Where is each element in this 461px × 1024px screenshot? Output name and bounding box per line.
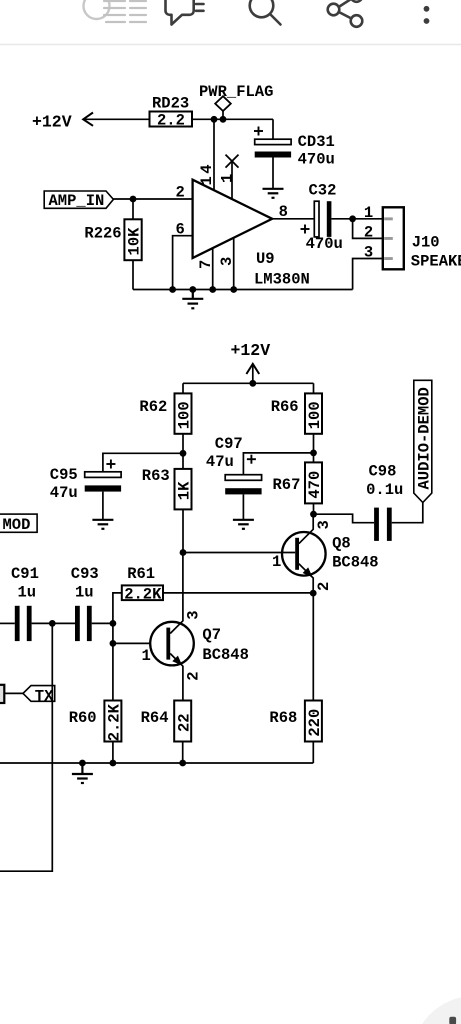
wire node K to L	[112, 623, 114, 643]
svg-text:6: 6	[176, 220, 185, 238]
svg-text:1: 1	[272, 553, 281, 571]
node dot R64	[179, 760, 186, 767]
wire C91 to dot M	[32, 622, 75, 624]
svg-text:C95: C95	[50, 466, 78, 484]
svg-text:BC848: BC848	[202, 646, 249, 664]
capacitor C98	[366, 463, 403, 541]
svg-text:CD31: CD31	[298, 133, 335, 151]
svg-text:1K: 1K	[176, 481, 194, 500]
capacitor C93	[71, 565, 99, 641]
svg-text:2.2K: 2.2K	[124, 586, 162, 604]
resistor R64	[141, 701, 194, 764]
svg-text:BC848: BC848	[332, 553, 379, 571]
resistor R68	[269, 593, 324, 763]
resistor R67	[273, 453, 325, 514]
svg-text:1: 1	[364, 204, 373, 222]
global label TX	[23, 686, 55, 706]
svg-text:U9: U9	[256, 250, 275, 268]
global label MOD	[0, 514, 37, 534]
node junction dot H	[180, 549, 187, 556]
svg-text:2: 2	[184, 671, 202, 680]
node dot R60	[110, 760, 117, 767]
svg-text:+12V: +12V	[231, 341, 271, 360]
node dot pin6	[169, 286, 176, 293]
svg-text:1u: 1u	[75, 584, 94, 602]
svg-text:C91: C91	[11, 565, 39, 583]
wire +12V rail	[183, 382, 314, 384]
ground C95	[92, 520, 113, 529]
svg-text:LM380N: LM380N	[254, 271, 310, 289]
node junction dot D	[349, 215, 356, 222]
wire Q8 base	[183, 552, 295, 554]
svg-text:R63: R63	[142, 467, 170, 485]
wire node L to R60	[112, 643, 114, 700]
ground amp	[72, 763, 93, 783]
svg-text:3: 3	[364, 244, 373, 262]
wire to J10 pin2	[353, 219, 383, 239]
svg-text:R67: R67	[273, 476, 301, 494]
svg-text:Q7: Q7	[202, 626, 221, 644]
svg-text:RD23: RD23	[152, 95, 189, 113]
SCHEMATIC BOTTOM SECTION	[0, 341, 434, 871]
node dot gnd	[189, 286, 196, 293]
svg-text:R68: R68	[269, 709, 297, 727]
capacitor C91	[0, 565, 39, 641]
global label AUDIO-DEMOD	[414, 380, 434, 502]
svg-text:22: 22	[175, 713, 193, 732]
node junction dot F	[180, 450, 187, 457]
svg-text:MOD: MOD	[3, 516, 31, 534]
ground CD31	[263, 189, 284, 198]
capacitor CD31	[254, 119, 335, 188]
svg-text:470u: 470u	[298, 151, 335, 169]
svg-text:PWR_FLAG: PWR_FLAG	[199, 83, 273, 101]
svg-text:R226: R226	[84, 225, 121, 243]
node junction dot M	[49, 620, 56, 627]
node junction dot A	[211, 116, 218, 123]
wire pin 6	[173, 236, 193, 290]
resistor R226	[84, 199, 143, 290]
wire pin 8 output	[272, 218, 314, 220]
svg-text:R66: R66	[271, 398, 299, 416]
capacitor C97	[206, 435, 314, 519]
power +12V amp	[231, 341, 271, 383]
wire node L to Q7 base	[113, 642, 166, 644]
wire to TX	[4, 692, 23, 694]
wire pin 14	[213, 119, 215, 190]
resistor R61	[113, 565, 163, 623]
svg-text:220: 220	[306, 709, 324, 737]
node junction dot J	[310, 590, 317, 597]
bottom-right zoom control	[412, 996, 461, 1024]
connector J10	[364, 204, 461, 270]
wire RD23 to CD31	[192, 118, 273, 120]
wire pin 1	[231, 161, 233, 199]
svg-text:100: 100	[176, 401, 194, 429]
svg-text:3: 3	[218, 257, 236, 266]
node junction dot I	[310, 511, 317, 518]
svg-text:AMP_IN: AMP_IN	[49, 192, 105, 210]
svg-text:1u: 1u	[18, 584, 37, 602]
wire pin 3	[233, 238, 235, 289]
svg-text:+12V: +12V	[32, 112, 72, 131]
SCHEMATIC TOP SECTION	[32, 83, 461, 308]
svg-text:7: 7	[197, 260, 215, 269]
svg-text:100: 100	[306, 401, 324, 429]
node junction dot K	[110, 620, 117, 627]
svg-text:470u: 470u	[306, 235, 343, 253]
wire +12V to RD23	[84, 118, 150, 120]
wire J10 pin3 to gnd rail	[353, 259, 383, 290]
svg-text:R64: R64	[141, 709, 169, 727]
wire C98 to label	[392, 503, 423, 523]
no-connect X on pin 1	[226, 155, 239, 168]
wire R61 to Q8 emitter	[163, 592, 313, 594]
svg-text:Q8: Q8	[332, 535, 351, 553]
wire C32 to J10 pin1	[331, 218, 382, 220]
resistor R66	[271, 383, 324, 453]
svg-text:R61: R61	[127, 565, 155, 583]
svg-text:AUDIO-DEMOD: AUDIO-DEMOD	[416, 387, 434, 489]
global label AMP_IN	[44, 191, 113, 210]
svg-text:47u: 47u	[206, 453, 234, 471]
svg-text:TX: TX	[35, 688, 54, 706]
svg-text:2: 2	[315, 582, 333, 591]
resistor R63	[142, 453, 194, 552]
op-amp U9	[193, 180, 273, 258]
svg-text:R60: R60	[69, 709, 97, 727]
transistor Q7	[142, 553, 249, 701]
transistor Q8	[272, 514, 379, 593]
wire gnd rail amp	[0, 762, 313, 764]
svg-text:8: 8	[279, 203, 288, 221]
wire TX column down	[0, 623, 52, 871]
svg-text:3: 3	[315, 520, 333, 529]
svg-text:C98: C98	[369, 463, 397, 481]
svg-text:3: 3	[184, 610, 202, 619]
node junction dot E	[249, 380, 256, 387]
svg-text:2: 2	[176, 183, 185, 201]
svg-text:C97: C97	[215, 435, 243, 453]
svg-text:2: 2	[364, 224, 373, 242]
svg-text:SPEAKER: SPEAKER	[411, 252, 461, 270]
svg-text:14: 14	[198, 162, 216, 186]
svg-text:0.1u: 0.1u	[366, 481, 403, 499]
wire AMP_IN to pin 2	[113, 198, 192, 200]
svg-text:R62: R62	[139, 398, 167, 416]
svg-text:1: 1	[142, 647, 151, 665]
resistor R62	[139, 383, 193, 453]
node junction dot L	[110, 640, 117, 647]
node dot pin3	[230, 286, 237, 293]
wire C93 to node K	[92, 622, 113, 624]
svg-text:10K: 10K	[126, 227, 144, 256]
resistor R60	[69, 701, 124, 764]
svg-text:2.2: 2.2	[157, 112, 185, 130]
svg-text:47u: 47u	[50, 484, 78, 502]
wire pin 7	[212, 249, 214, 290]
svg-text:470: 470	[306, 471, 324, 499]
node junction dot B	[220, 116, 227, 123]
node junction dot C	[130, 196, 137, 203]
power +12V left	[32, 112, 93, 131]
node dot pin7	[209, 286, 216, 293]
capacitor C95	[50, 453, 183, 519]
sheet pin stub left edge	[0, 685, 4, 703]
wire R67 to C98	[314, 514, 375, 523]
ground C97	[233, 520, 254, 529]
svg-text:C93: C93	[71, 565, 99, 583]
svg-text:1: 1	[219, 174, 237, 183]
svg-text:2.2K: 2.2K	[106, 703, 124, 741]
svg-text:C32: C32	[309, 181, 337, 199]
node dot gnd amp	[79, 760, 86, 767]
ground U9	[182, 290, 203, 309]
node junction dot G	[310, 450, 317, 457]
svg-text:J10: J10	[412, 233, 440, 251]
capacitor C32	[301, 181, 343, 253]
power flag PWR_FLAG	[199, 83, 273, 120]
resistor RD23	[150, 95, 193, 130]
wire gnd rail U9	[133, 289, 353, 291]
TOOLBAR	[0, 0, 461, 44]
